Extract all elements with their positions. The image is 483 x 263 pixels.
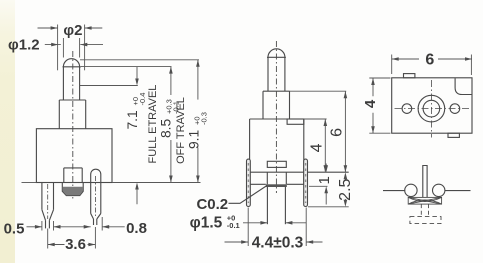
svg-text:0.8: 0.8	[126, 220, 147, 237]
dim text 9.1	[186, 112, 208, 149]
dim 4 (top view) extension lines	[369, 77, 390, 79]
dim text 7.1	[125, 93, 147, 130]
bottom view: clinched tabs	[408, 197, 441, 204]
front view: plunger dome	[268, 49, 285, 57]
svg-text:OFF TRAVEL: OFF TRAVEL	[175, 97, 187, 164]
top view: center hole outer	[418, 95, 445, 122]
left view: plunger centerline	[72, 51, 74, 201]
dim 6 (top view) extension lines	[391, 55, 393, 75]
bottom view: board line left	[383, 190, 405, 192]
svg-text:φ1.2: φ1.2	[8, 37, 40, 54]
front view: plunger narrow shaft	[267, 57, 269, 91]
front view: left bracket arm	[247, 159, 251, 206]
svg-text:8.5: 8.5	[159, 118, 174, 138]
dim 7.1	[136, 67, 138, 79]
front view: terminal pin	[266, 187, 268, 224]
reference line: dome base (8.5)	[81, 66, 172, 68]
front view: shoulder step	[263, 90, 290, 92]
dim 4 (top view)	[372, 78, 374, 96]
dim 2.5	[344, 178, 346, 181]
dim 2.5 reference line (bracket bottom)	[308, 206, 349, 208]
svg-text:C0.2: C0.2	[196, 196, 228, 213]
dim 9.1	[197, 60, 199, 100]
front view: right bracket arm	[304, 159, 308, 206]
left view: left terminal leg	[41, 183, 43, 210]
svg-text:4.4±0.3: 4.4±0.3	[252, 235, 304, 252]
svg-text:4: 4	[309, 143, 326, 152]
svg-text:9.1: 9.1	[186, 130, 201, 149]
front view: pocket walls	[266, 172, 268, 184]
bottom view: board line right	[445, 190, 471, 192]
top view: left hole	[402, 104, 412, 114]
top view: vertical centerline	[430, 80, 432, 138]
right leg centerline	[94, 176, 96, 217]
svg-text:φ1.5: φ1.5	[190, 214, 223, 231]
front view: corner notch	[287, 119, 304, 124]
dim 4 top reference	[304, 118, 327, 120]
top view: center hole inner	[423, 100, 440, 117]
left view: bottom nub	[62, 183, 83, 196]
dim 6 (top view)	[392, 58, 419, 60]
dim phi1.2	[45, 44, 61, 46]
svg-text:-0.4: -0.4	[138, 93, 147, 106]
bottom view: hidden outline	[410, 217, 441, 224]
front view: body top	[250, 118, 304, 120]
front view: body bottom	[250, 183, 266, 185]
dim 8.5	[170, 67, 172, 95]
dim 0.8 extension line	[101, 217, 103, 231]
top view: horizontal centerline	[395, 108, 470, 110]
dim 3.6 extension lines	[47, 229, 49, 249]
top view: outline	[392, 78, 472, 133]
reference line: free position (9.1)	[80, 59, 199, 61]
svg-text:6: 6	[328, 128, 345, 137]
top view: bottom tab	[448, 133, 459, 137]
svg-text:-0.1: -0.1	[227, 221, 240, 230]
front view: body sides	[249, 119, 251, 184]
svg-text:-0.3: -0.3	[199, 112, 208, 125]
svg-text:0.5: 0.5	[4, 221, 25, 238]
dim text 8.5	[159, 99, 181, 138]
svg-text:3.6: 3.6	[65, 236, 86, 253]
front view: centerline	[275, 41, 277, 193]
left leg centerline	[47, 184, 49, 219]
reference line: full travel position (7.1)	[80, 85, 138, 87]
dim phi2	[38, 27, 58, 29]
left view: inner pocket	[64, 167, 82, 169]
top view: top tab	[404, 74, 415, 78]
bottom view: stem	[423, 166, 427, 198]
top view: rounded corner detail	[455, 78, 471, 94]
dim 6 top reference	[290, 90, 347, 92]
front view: mounting plane line	[250, 171, 349, 173]
dim 0.8	[102, 226, 125, 228]
left view: bracket arm / right terminal	[91, 169, 101, 213]
top view: right hole	[450, 104, 460, 114]
dim 4.4±0.3	[225, 241, 249, 243]
svg-text:2.5: 2.5	[337, 178, 354, 200]
dim phi1.2 extension lines	[62, 38, 64, 58]
front view: contact bar	[266, 184, 287, 187]
left view: switch body	[36, 129, 112, 183]
left view: mounting plane reference line	[22, 182, 37, 184]
svg-text:φ2: φ2	[63, 22, 82, 39]
front view: window	[267, 161, 286, 167]
dim 1	[325, 164, 327, 166]
svg-text:7.1: 7.1	[125, 110, 140, 129]
dim phi2 extension lines	[57, 25, 59, 71]
svg-text:1: 1	[316, 176, 333, 184]
dim 4.4±0.3 extension lines	[247, 208, 249, 247]
dim 1 reference line	[309, 185, 328, 187]
svg-text:6: 6	[425, 52, 434, 69]
dim 3.6	[48, 244, 65, 246]
left view: plunger wide shaft	[58, 100, 60, 129]
bottom view: left lug circle	[405, 184, 417, 196]
bottom view: hidden pin lines	[420, 204, 422, 217]
svg-text:4: 4	[362, 99, 379, 108]
bottom view: right lug circle	[433, 184, 445, 196]
left view: plunger dome	[63, 59, 79, 67]
front view: mid shaft	[262, 91, 264, 119]
left view: plunger shoulder	[59, 99, 85, 101]
dim 0.5 extension lines	[41, 221, 43, 231]
svg-text:FULL ETRAVEL: FULL ETRAVEL	[147, 85, 159, 164]
left view: plunger narrow shaft	[62, 67, 64, 100]
